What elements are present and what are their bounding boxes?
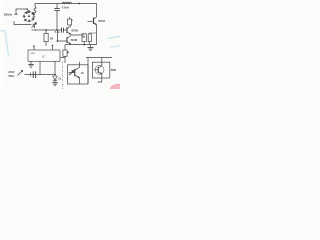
capacitor C3 xyxy=(88,33,96,45)
capacitor C1 xyxy=(54,4,59,31)
wire xyxy=(14,21,32,25)
node D junction xyxy=(83,44,85,46)
node C junction xyxy=(56,29,58,31)
svg-text:BSW: BSW xyxy=(111,69,117,72)
transistor Q1 xyxy=(67,26,71,35)
diode D1 xyxy=(63,45,69,63)
ground xyxy=(52,83,58,86)
svg-text:BC547: BC547 xyxy=(98,20,106,23)
shield boundary dash-dot xyxy=(62,62,64,90)
down arrow symbol xyxy=(33,24,36,28)
wire emitter rail xyxy=(65,44,97,46)
pin U1 top right xyxy=(52,44,54,50)
wire pin down xyxy=(39,61,41,74)
capacitor C2 xyxy=(62,28,67,33)
node A junction xyxy=(78,3,80,5)
svg-text:4.7mH: 4.7mH xyxy=(62,5,69,9)
wire M2 bottom pin xyxy=(98,78,102,82)
trimmer arrow xyxy=(32,22,37,27)
svg-text:220V: 220V xyxy=(8,70,14,74)
svg-text:BF195: BF195 xyxy=(71,39,78,42)
diode D2 xyxy=(53,76,58,82)
oscillator ring assembly X1 xyxy=(23,10,35,22)
ground xyxy=(28,61,34,67)
node E junction xyxy=(54,74,56,76)
ground xyxy=(88,45,94,51)
inductor L1 xyxy=(62,2,72,4)
svg-text:AC: AC xyxy=(81,72,85,75)
wire xyxy=(87,58,89,84)
wire supply rail xyxy=(35,4,97,18)
crystal Y1 xyxy=(68,17,73,25)
wire pin right xyxy=(60,57,65,59)
input arrow xyxy=(18,70,24,76)
module box M2 xyxy=(93,62,110,78)
transistor Q4 xyxy=(69,62,80,84)
resistor R5 xyxy=(82,34,86,45)
transistor Q2 xyxy=(67,36,71,45)
wire bottom xyxy=(25,74,56,76)
svg-text:4069: 4069 xyxy=(30,53,36,55)
wire xyxy=(16,8,29,14)
terminal bar xyxy=(15,13,18,15)
transistor Q3 xyxy=(88,17,97,45)
module box M1 xyxy=(68,65,89,84)
wire Q2 base feed xyxy=(57,30,67,42)
pin U1 top left xyxy=(33,45,35,50)
svg-text:50Hz: 50Hz xyxy=(8,74,15,78)
inductor L2 vertical xyxy=(33,7,36,16)
svg-text:1M: 1M xyxy=(50,38,53,41)
wire M2 top pin xyxy=(101,58,103,63)
wire Q1 emitter xyxy=(71,33,83,36)
svg-text:625kHz: 625kHz xyxy=(4,13,13,17)
wire base line xyxy=(36,29,62,31)
IC U1 xyxy=(28,50,60,61)
svg-text:BF194: BF194 xyxy=(72,29,79,32)
wire pin down xyxy=(54,61,56,74)
capacitor C4 xyxy=(31,71,36,78)
transistor Q5 xyxy=(94,62,104,78)
wire output rail xyxy=(86,57,112,59)
resistor R1 xyxy=(44,30,48,46)
node B junction xyxy=(45,29,47,31)
